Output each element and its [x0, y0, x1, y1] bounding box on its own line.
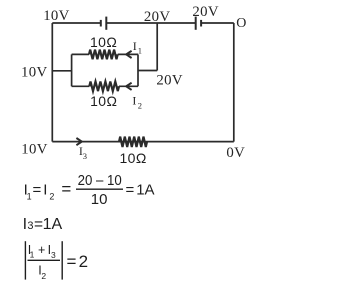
svg-text:2: 2 — [79, 252, 88, 271]
battery B2 short plate — [200, 20, 202, 27]
svg-text:=: = — [33, 182, 42, 199]
arrow I3 chevron — [76, 138, 81, 145]
svg-text:0V: 0V — [226, 145, 245, 161]
svg-text:=: = — [61, 180, 71, 199]
resistor R2 10ohm lower — [89, 82, 119, 92]
svg-text:I2: I2 — [43, 182, 54, 202]
svg-text:10: 10 — [91, 191, 108, 208]
wire lower branch left — [72, 85, 90, 87]
arrow I1 chevron — [126, 51, 131, 58]
svg-text:10V: 10V — [43, 8, 70, 24]
resistor R1 10ohm upper — [89, 50, 118, 60]
svg-text:I2: I2 — [132, 94, 142, 111]
battery B1 short plate — [100, 20, 102, 27]
svg-text:20V: 20V — [192, 4, 219, 20]
svg-text:20 – 10: 20 – 10 — [78, 173, 122, 189]
svg-text:1A: 1A — [136, 182, 154, 199]
battery B1 long plate — [105, 17, 107, 30]
wire top-middle segment — [106, 22, 195, 24]
battery B2 long plate — [195, 17, 197, 30]
svg-text:I: I — [23, 216, 27, 233]
svg-text:1A: 1A — [43, 216, 63, 233]
wire left stub to parallel pair — [52, 70, 71, 72]
eq3 fraction bar — [28, 259, 61, 261]
svg-text:I2: I2 — [38, 263, 46, 280]
resistor R3 10ohm bottom — [119, 137, 147, 147]
svg-text:I1: I1 — [24, 182, 32, 202]
svg-text:I3: I3 — [79, 144, 87, 161]
wire jog vertical to top — [156, 23, 158, 71]
arrow I2 chevron — [126, 83, 131, 90]
equation 3: |(I1+I3)/I2| = 2 — [25, 241, 88, 281]
svg-text:10V: 10V — [21, 142, 48, 158]
svg-text:3: 3 — [27, 220, 33, 232]
svg-text:=: = — [67, 252, 77, 271]
svg-text:10Ω: 10Ω — [90, 93, 117, 109]
svg-text:I3: I3 — [48, 243, 56, 260]
wire upper branch left — [72, 53, 89, 55]
svg-text:10Ω: 10Ω — [120, 150, 147, 166]
wire top-right segment to node O — [201, 22, 234, 24]
equation 1: I1 = I2 = (20-10)/10 = 1A — [24, 173, 155, 208]
svg-text:20V: 20V — [144, 9, 171, 25]
wire left side — [51, 23, 53, 142]
svg-text:10Ω: 10Ω — [90, 34, 117, 50]
svg-text:I1: I1 — [28, 243, 35, 260]
wire jog horizontal — [138, 70, 157, 72]
wire bottom — [52, 141, 234, 143]
eq3 right absolute bar — [61, 241, 63, 279]
svg-text:O: O — [236, 16, 246, 31]
wire right connector of parallel pair — [137, 54, 139, 86]
wire left connector of parallel pair — [71, 54, 73, 86]
wire upper branch right — [118, 53, 138, 55]
svg-text:I1: I1 — [133, 39, 142, 55]
wire top-left segment — [52, 22, 101, 24]
svg-text:+: + — [38, 243, 45, 257]
wire lower branch right — [119, 85, 138, 87]
eq3 left absolute bar — [24, 241, 26, 279]
eq1 fraction bar — [76, 188, 123, 190]
svg-text:20V: 20V — [156, 73, 183, 89]
svg-text:=: = — [126, 182, 135, 199]
svg-text:10V: 10V — [21, 65, 48, 81]
wire right side — [233, 23, 235, 142]
